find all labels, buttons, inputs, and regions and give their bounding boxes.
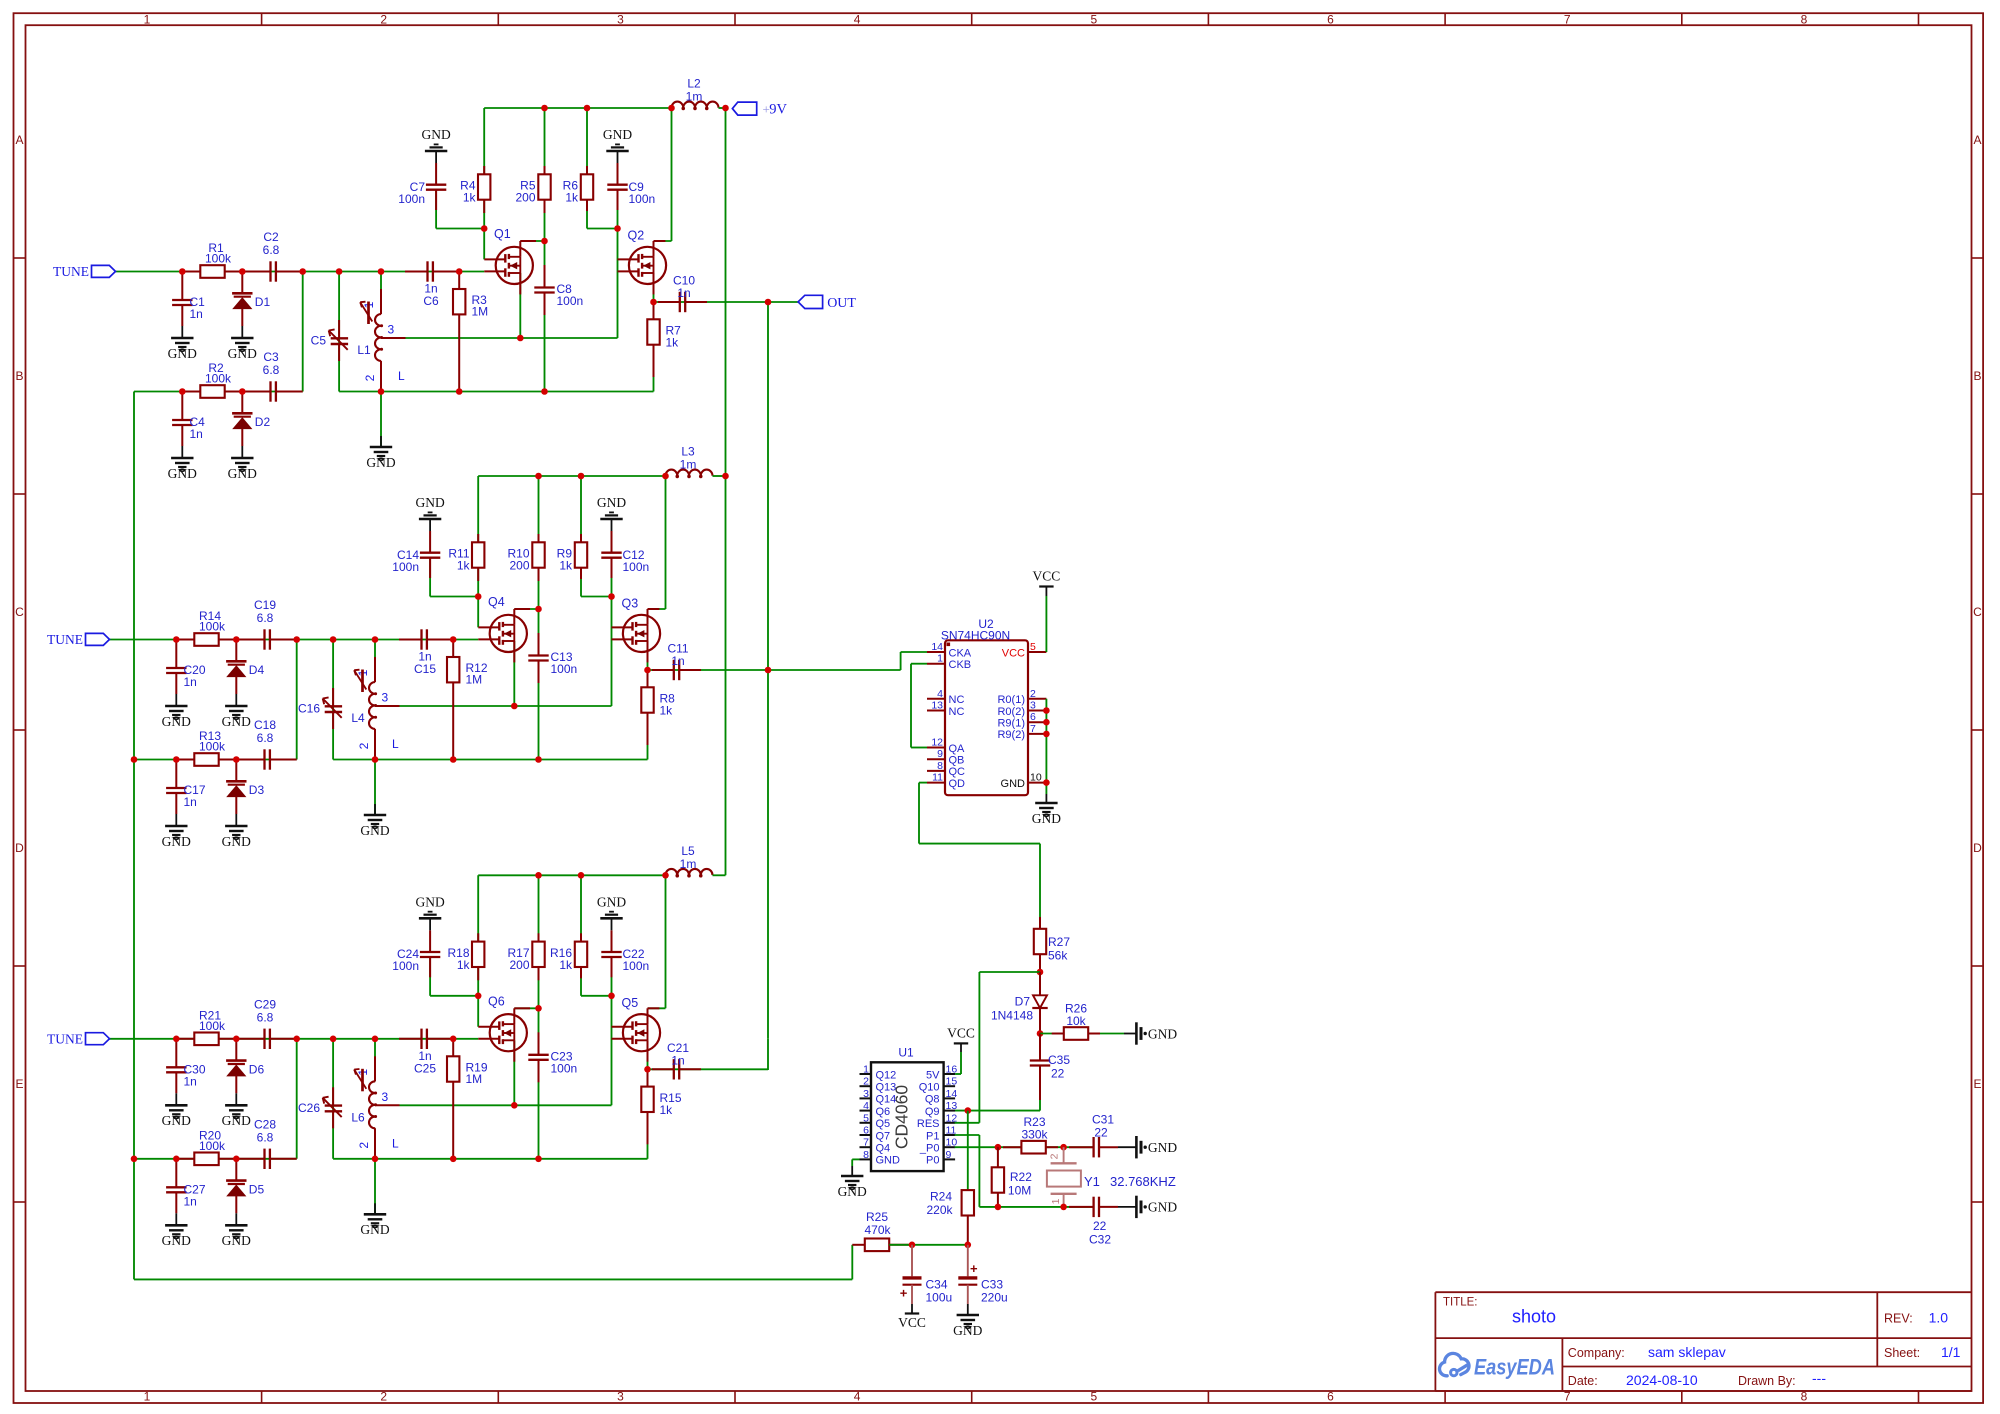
svg-text:9: 9 xyxy=(937,748,943,760)
svg-text:C18: C18 xyxy=(254,718,276,732)
pin 6 Q7 of U1 xyxy=(860,1134,872,1136)
svg-text:32.768KHZ: 32.768KHZ xyxy=(1110,1174,1176,1189)
resistor R4 1k xyxy=(483,166,485,175)
wire right mosfet source node xyxy=(647,1040,649,1069)
svg-text:6.8: 6.8 xyxy=(263,363,280,377)
svg-text:GND: GND xyxy=(1148,1200,1177,1215)
wire P1 pin down to crystal row xyxy=(955,1134,980,1136)
ground of L1 pin 2 xyxy=(380,436,382,447)
svg-text:Q6: Q6 xyxy=(488,994,505,1008)
svg-text:Q4: Q4 xyxy=(876,1143,891,1155)
net flag +9V xyxy=(732,102,756,115)
svg-text:EasyEDA: EasyEDA xyxy=(1474,1355,1555,1380)
pin 12 RES of U1 xyxy=(944,1122,956,1124)
capacitor C8 100n xyxy=(544,265,546,288)
svg-text:B: B xyxy=(1973,369,1981,383)
svg-text:Y1: Y1 xyxy=(1084,1174,1100,1189)
wire U1 5V to VCC xyxy=(955,1073,961,1075)
inductor L3 1m xyxy=(666,470,713,476)
tap lead pin 3 of L1 xyxy=(381,337,406,339)
pin 8 GND of U1 xyxy=(860,1158,872,1160)
svg-text:QD: QD xyxy=(949,778,966,790)
svg-text:6.8: 6.8 xyxy=(257,1010,274,1024)
pin 2 R0(1) of U2 xyxy=(1028,698,1046,700)
resistor R5 200 xyxy=(544,166,546,175)
electrolytic capacitor C34 100u xyxy=(900,1245,922,1304)
svg-text:1m: 1m xyxy=(686,90,703,104)
resistor R25 470k xyxy=(852,1244,865,1246)
svg-text:C5: C5 xyxy=(311,334,327,348)
svg-text:L1: L1 xyxy=(357,343,371,357)
svg-text:10M: 10M xyxy=(1008,1184,1031,1198)
wire output row of C10 xyxy=(654,301,799,303)
ground of C4 xyxy=(181,446,183,458)
pin 5 VCC of U2 xyxy=(1028,651,1046,653)
svg-text:Q7: Q7 xyxy=(876,1130,891,1142)
svg-text:GND: GND xyxy=(162,1233,191,1248)
svg-text:P0: P0 xyxy=(926,1155,939,1167)
svg-text:R9(2): R9(2) xyxy=(997,729,1025,741)
svg-text:CKB: CKB xyxy=(949,659,972,671)
junction dots xyxy=(173,1036,180,1043)
svg-text:REV:: REV: xyxy=(1884,1312,1913,1326)
svg-text:9: 9 xyxy=(946,1149,952,1161)
wire left bias link xyxy=(429,558,431,597)
wire gnd drop of inductor pin2 xyxy=(374,760,376,816)
wire output row of C21 xyxy=(648,1068,769,1070)
wire right mosfet source node xyxy=(653,273,655,302)
svg-text:15: 15 xyxy=(946,1076,958,1088)
pin 6 R9(1) of U2 xyxy=(1028,721,1046,723)
svg-text:6.8: 6.8 xyxy=(257,731,274,745)
pin 10 _P0 of U1 xyxy=(944,1146,956,1148)
wire left mosfet source drop xyxy=(513,1040,515,1105)
svg-text:Q5: Q5 xyxy=(622,996,639,1010)
capacitor C28 6.8 xyxy=(241,1158,265,1160)
tapped inductor L1 xyxy=(380,289,382,314)
svg-text:1n: 1n xyxy=(184,675,197,689)
trimmer capacitor C5 xyxy=(338,320,340,338)
pin 1 Q12 of U1 xyxy=(860,1073,872,1075)
wire inductor tap to gates xyxy=(406,337,618,339)
capacitor C30 1n xyxy=(175,1039,177,1068)
svg-text:6: 6 xyxy=(863,1125,869,1137)
capacitor C25 1n coupling xyxy=(399,1038,422,1040)
wire left mosfet drain link xyxy=(520,240,544,242)
svg-text:+: + xyxy=(900,1286,908,1301)
ground below U2 xyxy=(1045,794,1047,803)
svg-text:2: 2 xyxy=(363,374,377,381)
svg-text:A: A xyxy=(1973,133,1981,147)
svg-text:9V: 9V xyxy=(769,102,787,118)
pin 10 GND of U2 xyxy=(1028,782,1046,784)
svg-text:2: 2 xyxy=(357,742,371,749)
varicap diode D1 xyxy=(241,272,243,294)
svg-text:C33: C33 xyxy=(981,1278,1003,1292)
svg-text:C: C xyxy=(1973,605,1982,619)
svg-text:6: 6 xyxy=(1327,1390,1334,1404)
svg-text:C34: C34 xyxy=(926,1278,948,1292)
junction crystal pin1 xyxy=(1060,1204,1067,1211)
svg-text:12: 12 xyxy=(931,737,943,749)
wire left mosfet drain link xyxy=(514,608,538,610)
trimmer capacitor C16 xyxy=(332,688,334,706)
wire inductor branch xyxy=(374,640,376,683)
junction +9V at L3 xyxy=(722,473,729,480)
wire right mosfet drain riser xyxy=(648,1007,666,1009)
capacitor C13 100n xyxy=(538,633,540,656)
inductor L2 1m xyxy=(672,102,719,108)
svg-text:SN74HC90N: SN74HC90N xyxy=(941,629,1010,643)
wire RES riser to R27 xyxy=(979,971,1040,973)
wire source resistor drop xyxy=(653,344,655,392)
net flag TUNE (stage 2) xyxy=(86,633,110,645)
junction dots xyxy=(179,268,186,275)
svg-text:L3: L3 xyxy=(681,445,695,459)
trimmer capacitor C26 xyxy=(332,1087,334,1105)
svg-text:Date:: Date: xyxy=(1568,1374,1598,1388)
wire left mosfet source drop xyxy=(519,273,521,338)
junction R23 crystal pin2 xyxy=(1060,1144,1067,1151)
svg-text:D: D xyxy=(1973,841,1982,855)
svg-text:5: 5 xyxy=(1030,641,1036,653)
resistor R19 1M xyxy=(452,1039,454,1057)
svg-text:GND: GND xyxy=(415,895,444,910)
svg-text:L: L xyxy=(398,369,405,383)
svg-text:Q14: Q14 xyxy=(876,1094,897,1106)
resistor R26 10k xyxy=(1052,1033,1064,1035)
junction _P0 R22 top xyxy=(995,1144,1002,1151)
svg-text:E: E xyxy=(15,1077,23,1091)
ground of L4 pin 2 xyxy=(374,804,376,815)
title block xyxy=(1435,1292,1971,1391)
sideways ground at R26 xyxy=(1135,1022,1138,1044)
junction C34 xyxy=(909,1242,916,1249)
resistor R10 200 xyxy=(538,534,540,543)
junction R22 bottom xyxy=(995,1204,1002,1211)
svg-text:100n: 100n xyxy=(392,560,419,574)
wire source resistor drop xyxy=(647,1111,649,1159)
wire TUNE input row (stage 1) xyxy=(116,271,485,273)
varicap diode D2 xyxy=(241,392,243,414)
svg-text:100n: 100n xyxy=(551,1061,578,1075)
wire right mosfet drain riser xyxy=(648,608,666,610)
svg-text:CKA: CKA xyxy=(949,647,972,659)
wire top rail xyxy=(478,475,665,477)
ground of C17 xyxy=(175,814,177,826)
tap lead pin 3 of L6 xyxy=(375,1104,400,1106)
pin 12 QA of U2 xyxy=(927,747,945,749)
resistor R12 1M xyxy=(452,640,454,658)
pin 13 Q9 of U1 xyxy=(944,1110,956,1112)
svg-text:100u: 100u xyxy=(926,1291,953,1305)
svg-text:RES: RES xyxy=(917,1118,940,1130)
svg-text:1.0: 1.0 xyxy=(1929,1310,1949,1326)
svg-text:5: 5 xyxy=(1090,1390,1097,1404)
capacitor C17 1n xyxy=(175,760,177,789)
svg-text:1: 1 xyxy=(863,1064,869,1076)
resistor R8 1k xyxy=(647,670,649,688)
wire lower row xyxy=(134,759,297,761)
wire R25 to C33/R24 xyxy=(889,1244,968,1246)
svg-text:10k: 10k xyxy=(1066,1014,1086,1028)
svg-text:1k: 1k xyxy=(457,958,471,972)
ground above C14 xyxy=(429,519,431,531)
svg-text:470k: 470k xyxy=(864,1223,891,1237)
dual-gate MOSFET Q4 xyxy=(490,615,527,652)
svg-text:1k: 1k xyxy=(660,1103,674,1117)
wire right bias riser xyxy=(586,108,588,229)
capacitor C32 22 xyxy=(1069,1206,1094,1208)
wire right mosfet drain riser xyxy=(654,240,672,242)
wire lower row xyxy=(134,391,303,393)
capacitor C19 6.8 xyxy=(241,639,265,641)
svg-text:1k: 1k xyxy=(666,336,680,350)
wire trimmer branch xyxy=(338,272,340,392)
resistor R6 1k xyxy=(586,166,588,175)
wire junction to R26 xyxy=(1040,1033,1063,1035)
svg-text:2: 2 xyxy=(1030,688,1036,700)
svg-text:200: 200 xyxy=(509,559,529,573)
svg-text:L: L xyxy=(392,1136,399,1150)
svg-text:GND: GND xyxy=(597,895,626,910)
junction R27-D7-RES xyxy=(1037,969,1044,976)
svg-text:GND: GND xyxy=(1032,811,1061,826)
pin 7 R9(2) of U2 xyxy=(1028,733,1046,735)
svg-text:3: 3 xyxy=(388,323,395,337)
EasyEDA logo xyxy=(1440,1353,1555,1379)
electrolytic capacitor C33 220u xyxy=(958,1245,978,1304)
capacitor C35 22 xyxy=(1039,1034,1041,1061)
svg-text:L2: L2 xyxy=(687,77,701,91)
svg-text:D: D xyxy=(15,841,24,855)
svg-text:Q13: Q13 xyxy=(876,1082,897,1094)
svg-text:GND: GND xyxy=(228,466,257,481)
wire C35 to Q9 row xyxy=(1039,1100,1041,1111)
resistor R17 200 xyxy=(538,933,540,942)
varicap diode D6 xyxy=(235,1039,237,1061)
resistor R2 100k xyxy=(182,391,200,393)
svg-text:100n: 100n xyxy=(398,192,425,206)
resistor R9 1k xyxy=(580,534,582,543)
svg-text:GND: GND xyxy=(360,823,389,838)
dual-gate MOSFET Q5 xyxy=(623,1014,660,1051)
junction OUT node xyxy=(765,299,772,306)
svg-text:NC: NC xyxy=(949,706,965,718)
svg-text:Q3: Q3 xyxy=(622,597,639,611)
junction +9V at L2 xyxy=(722,105,729,112)
resistor R7 1k xyxy=(653,302,655,320)
ground of D6 xyxy=(235,1093,237,1105)
svg-text:D2: D2 xyxy=(255,415,271,429)
dual-gate MOSFET Q3 xyxy=(623,615,660,652)
svg-text:Q6: Q6 xyxy=(876,1106,891,1118)
pin 9 QB of U2 xyxy=(927,758,945,760)
svg-text:100k: 100k xyxy=(199,740,226,754)
svg-text:L: L xyxy=(392,737,399,751)
resistor R15 1k xyxy=(647,1069,649,1087)
svg-text:C15: C15 xyxy=(414,662,436,676)
tap lead pin 3 of L4 xyxy=(375,705,400,707)
tapped inductor L4 xyxy=(374,657,376,682)
svg-text:8: 8 xyxy=(863,1149,869,1161)
svg-text:1n: 1n xyxy=(190,307,203,321)
svg-text:R25: R25 xyxy=(866,1210,888,1224)
svg-text:C16: C16 xyxy=(298,702,320,716)
svg-text:D6: D6 xyxy=(249,1062,265,1076)
wire lower row xyxy=(134,1158,297,1160)
adjust slug and arrow of L6 xyxy=(361,1069,364,1092)
wire top rail xyxy=(478,874,665,876)
capacitor C2 6.8 xyxy=(247,271,271,273)
resistor R11 1k xyxy=(477,534,479,543)
svg-text:P1: P1 xyxy=(926,1130,939,1142)
svg-text:Q4: Q4 xyxy=(488,595,505,609)
ground of D2 xyxy=(241,446,243,458)
diode D7 1N4148 xyxy=(1039,972,1041,995)
resistor R14 100k xyxy=(176,639,194,641)
svg-text:GND: GND xyxy=(366,455,395,470)
wire output row of C11 xyxy=(648,669,901,671)
svg-text:6.8: 6.8 xyxy=(257,611,274,625)
svg-text:22: 22 xyxy=(1093,1219,1107,1233)
svg-text:1n: 1n xyxy=(671,1053,684,1067)
resistor R18 1k xyxy=(477,933,479,942)
capacitor C1 1n xyxy=(181,272,183,301)
wire C31 to ground xyxy=(1118,1146,1136,1148)
svg-text:R0(2): R0(2) xyxy=(997,706,1025,718)
adjust slug and arrow of L4 xyxy=(361,670,364,693)
svg-text:C3: C3 xyxy=(263,350,279,364)
capacitor C4 1n xyxy=(181,392,183,421)
svg-text:1M: 1M xyxy=(466,1072,483,1086)
svg-text:10: 10 xyxy=(1030,772,1042,784)
svg-text:6.8: 6.8 xyxy=(257,1130,274,1144)
svg-text:C: C xyxy=(15,605,24,619)
wire left bias riser xyxy=(477,875,479,1026)
wire Q9 junction to R24 xyxy=(967,1111,969,1191)
svg-text:100k: 100k xyxy=(199,620,226,634)
svg-text:C2: C2 xyxy=(263,230,279,244)
svg-text:1n: 1n xyxy=(184,1074,197,1088)
svg-text:GND: GND xyxy=(415,495,444,510)
adjust slug and arrow of L1 xyxy=(367,302,370,325)
pin 3 R0(2) of U2 xyxy=(1028,710,1046,712)
wire TUNE input row (stage 3) xyxy=(110,1038,479,1040)
svg-text:22: 22 xyxy=(1094,1125,1108,1139)
svg-text:100n: 100n xyxy=(623,959,650,973)
junction dots U2 reset pins xyxy=(1043,707,1050,714)
wire OUT bus xyxy=(767,302,769,1039)
varicap diode D3 xyxy=(235,760,237,782)
svg-text:2: 2 xyxy=(1049,1153,1061,1159)
pin 7 Q4 of U1 xyxy=(860,1146,872,1148)
ground of C27 xyxy=(175,1213,177,1225)
svg-text:1M: 1M xyxy=(472,305,489,319)
capacitor C9 100n xyxy=(617,163,619,185)
svg-text:5: 5 xyxy=(1090,12,1097,26)
svg-text:2024-08-10: 2024-08-10 xyxy=(1626,1372,1698,1388)
wire left bias link xyxy=(435,190,437,229)
svg-text:Q5: Q5 xyxy=(876,1118,891,1130)
wire U2 reset pins bus xyxy=(1045,699,1047,794)
svg-text:8: 8 xyxy=(1801,12,1808,26)
pin 1 CKB of U2 xyxy=(927,663,945,665)
wire inductor tap to gates xyxy=(400,1104,612,1106)
wire U1 GND pin to ground xyxy=(852,1158,859,1160)
svg-text:---: --- xyxy=(1812,1370,1826,1386)
svg-text:VCC: VCC xyxy=(898,1315,926,1330)
capacitor C27 1n xyxy=(175,1159,177,1188)
junction TUNE bus stage3 xyxy=(131,1156,138,1163)
sideways ground at C31 xyxy=(1135,1136,1138,1158)
svg-text:6: 6 xyxy=(1030,711,1036,723)
svg-text:14: 14 xyxy=(931,641,943,653)
svg-text:D4: D4 xyxy=(249,663,265,677)
wire inductor branch xyxy=(374,1039,376,1082)
ground of L6 pin 2 xyxy=(374,1203,376,1214)
resistor R27 56k xyxy=(1039,917,1041,929)
svg-text:22: 22 xyxy=(1051,1067,1065,1081)
svg-text:220u: 220u xyxy=(981,1291,1008,1305)
svg-text:3: 3 xyxy=(617,1390,624,1404)
svg-text:Drawn By:: Drawn By: xyxy=(1738,1374,1796,1388)
svg-text:L4: L4 xyxy=(351,711,365,725)
dual-gate MOSFET Q2 xyxy=(629,247,666,284)
svg-text:4: 4 xyxy=(854,1390,861,1404)
net flag TUNE (stage 1) xyxy=(92,265,116,277)
svg-text:100n: 100n xyxy=(551,662,578,676)
svg-text:Q10: Q10 xyxy=(919,1082,940,1094)
pin 13 NC of U2 xyxy=(927,710,945,712)
svg-text:1: 1 xyxy=(144,1390,151,1404)
svg-text:R24: R24 xyxy=(930,1190,952,1204)
svg-text:Q8: Q8 xyxy=(925,1094,940,1106)
power flag VCC above U2 xyxy=(1045,587,1047,597)
pin 15 Q10 of U1 xyxy=(944,1085,956,1087)
svg-text:2: 2 xyxy=(863,1076,869,1088)
wire mid riser xyxy=(544,108,546,285)
svg-text:3: 3 xyxy=(617,12,624,26)
svg-text:14: 14 xyxy=(946,1088,958,1100)
wire source resistor drop xyxy=(647,712,649,760)
svg-text:OUT: OUT xyxy=(827,296,856,311)
capacitor C18 6.8 xyxy=(241,759,265,761)
wire mid riser xyxy=(538,875,540,1052)
svg-text:7: 7 xyxy=(863,1137,869,1149)
wire gnd drop of inductor pin2 xyxy=(374,1159,376,1215)
pin 14 Q8 of U1 xyxy=(944,1097,956,1099)
svg-text:GND: GND xyxy=(603,127,632,142)
resistor R16 1k xyxy=(580,933,582,942)
capacitor C6 1n coupling xyxy=(405,271,428,273)
IC U2 SN74HC90N xyxy=(927,617,1046,795)
svg-text:C32: C32 xyxy=(1089,1233,1111,1247)
svg-text:1m: 1m xyxy=(680,458,697,472)
svg-text:1k: 1k xyxy=(463,191,477,205)
junction TUNE bus stage2 xyxy=(131,756,138,763)
pin 8 QC of U2 xyxy=(927,770,945,772)
svg-text:7: 7 xyxy=(1030,723,1036,735)
ground below U1 xyxy=(841,1175,863,1178)
svg-text:1k: 1k xyxy=(559,958,573,972)
wire left bias riser xyxy=(483,108,485,259)
svg-text:GND: GND xyxy=(597,495,626,510)
svg-text:GND: GND xyxy=(1148,1140,1177,1155)
wire trimmer branch xyxy=(332,1039,334,1159)
resistor R13 100k xyxy=(176,759,194,761)
junction Q9 row xyxy=(965,1107,972,1114)
